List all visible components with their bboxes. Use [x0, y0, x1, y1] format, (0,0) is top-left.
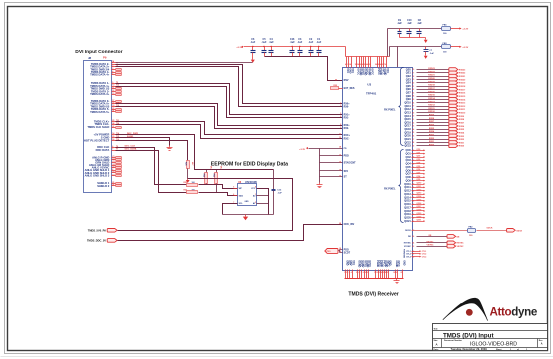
capacitor C8 0.1uF	[417, 19, 423, 38]
svg-text:VSYNC: VSYNC	[457, 246, 464, 248]
svg-text:34: 34	[412, 162, 414, 165]
svg-text:RXD18: RXD18	[459, 86, 466, 88]
svg-text:97: 97	[412, 139, 414, 141]
svg-text:11: 11	[339, 134, 341, 136]
connector pin C6 ANLG GND SHLD 2	[85, 171, 122, 175]
wire rail C to EXT_RES area	[397, 47, 399, 68]
svg-text:35: 35	[339, 170, 341, 172]
svg-text:QO11: QO11	[417, 186, 422, 188]
connector pin 15 S GND	[101, 135, 119, 139]
U3 right pin QO0 stub	[406, 149, 426, 152]
svg-text:RXD23: RXD23	[428, 68, 435, 70]
U3 caption	[348, 291, 398, 297]
svg-text:100: 100	[469, 235, 473, 237]
svg-text:RXD19: RXD19	[428, 81, 435, 83]
svg-text:37: 37	[339, 175, 341, 177]
wire FB1 to +3.3V	[451, 28, 460, 30]
connector pin C5 ANLG VSYNC	[92, 166, 122, 170]
svg-text:85: 85	[412, 99, 414, 101]
svg-text:PDO: PDO	[344, 155, 349, 158]
U3 bottom pin PGND	[378, 260, 383, 278]
U3 pin CTL3 stub	[406, 256, 426, 259]
svg-text:QO6: QO6	[417, 169, 421, 171]
U3 pin 5 RX1+	[340, 113, 350, 116]
svg-text:100: 100	[443, 33, 447, 35]
svg-text:P9: P9	[103, 55, 107, 59]
U3 right pin QE13 wire and port RXD10	[404, 111, 466, 115]
power arrow down group B	[424, 40, 428, 43]
EEPROM right pins	[245, 187, 257, 206]
power +3.3V arrow FB1	[459, 27, 468, 30]
U3 pin 3 RX0-	[340, 105, 349, 108]
U3 bottom pin PVCC	[376, 260, 381, 278]
capacitor C9 0.1uF	[397, 19, 402, 38]
svg-text:RXD1: RXD1	[429, 141, 435, 143]
svg-text:ODCK: ODCK	[487, 228, 493, 230]
svg-text:TMDS DATA 3+: TMDS DATA 3+	[90, 92, 110, 96]
U3 right pin QE15 wire and port RXD8	[404, 117, 465, 121]
connector pin C2 ANLG GRN	[95, 158, 122, 162]
U3 pin ODCK wire	[405, 230, 468, 232]
svg-text:.1uF: .1uF	[262, 41, 267, 44]
svg-text:79: 79	[412, 79, 414, 81]
svg-text:Sheet: Sheet	[496, 348, 502, 351]
svg-text:RX1-: RX1-	[344, 116, 350, 119]
U3 pin 33 STAG/CNT	[339, 161, 356, 164]
connector pin 6 DDC CLK	[97, 145, 118, 149]
connector pin C1 ANLG R-GND	[92, 155, 121, 159]
svg-text:RXD23: RXD23	[459, 69, 466, 71]
svg-text:RXD14: RXD14	[459, 98, 466, 101]
svg-text:RSV: RSV	[344, 79, 349, 82]
net label DDC_CLK	[125, 146, 136, 148]
ground bottom bus	[394, 279, 400, 284]
svg-text:DE: DE	[457, 236, 460, 238]
svg-text:33: 33	[339, 161, 341, 163]
svg-text:RXD21: RXD21	[428, 75, 435, 77]
svg-text:QO7: QO7	[417, 172, 421, 174]
svg-text:QO17: QO17	[417, 206, 422, 208]
svg-text:80: 80	[412, 82, 414, 84]
svg-text:10: 10	[366, 272, 368, 274]
connector pin 12 TMDS DATA 3-	[91, 89, 122, 93]
EEPROM U8 body	[238, 184, 257, 206]
connector J8 body	[84, 61, 112, 193]
connector pin 8 ANLG GND SHLD 1	[85, 168, 122, 172]
wire EEPROM GND to rail	[223, 204, 238, 215]
svg-text:RXD3: RXD3	[429, 134, 435, 136]
svg-text:OVCC: OVCC	[371, 68, 374, 75]
wire cap rail A	[244, 46, 346, 47]
U3 top pin 49 OVCC	[368, 57, 373, 76]
svg-text:RXD15: RXD15	[428, 95, 435, 97]
svg-text:8: 8	[340, 124, 341, 126]
wire +5V rail from pin 14	[116, 62, 253, 64]
power arrow down at R26	[186, 179, 190, 184]
svg-text:96: 96	[412, 136, 414, 138]
svg-text:RXD0: RXD0	[429, 144, 435, 146]
connector pin 25 SHIELD 1	[97, 181, 121, 185]
svg-text:.1uF: .1uF	[308, 41, 313, 44]
connector pin 18 TMDS DATA 0+	[90, 102, 119, 106]
U3 bottom pin OVCC	[363, 260, 367, 278]
U3 bottom pin VCC	[351, 260, 355, 278]
U3 right pin QO12 stub	[404, 189, 425, 192]
U3 bottom pin VCC	[346, 260, 350, 278]
svg-text:RXD17: RXD17	[459, 89, 466, 91]
U3 bottom pin AGND	[393, 260, 398, 278]
svg-text:QO20: QO20	[417, 216, 422, 218]
U3 right pin QO2 stub	[406, 156, 426, 159]
U3 right pin QE9 wire and port RXD14	[406, 97, 466, 101]
wire trunk to pin SF0	[320, 170, 343, 172]
svg-text:TMDS DATA 4+: TMDS DATA 4+	[90, 73, 110, 77]
logo red dot	[466, 309, 473, 316]
svg-text:.1uF: .1uF	[297, 41, 302, 44]
svg-text:QO14: QO14	[417, 195, 422, 198]
svg-text:RXD6: RXD6	[429, 125, 435, 127]
port ODCK	[507, 229, 523, 233]
U3 right pin QO16 stub	[404, 203, 425, 206]
svg-text:SCDT: SCDT	[344, 251, 351, 254]
U3 top pin 14 VCC	[349, 57, 354, 74]
svg-text:RXD2: RXD2	[459, 139, 465, 141]
U3 right pin QO18 stub	[404, 210, 425, 213]
svg-text:TFP401: TFP401	[366, 92, 377, 96]
svg-text:.1uF: .1uF	[407, 22, 412, 25]
svg-text:90: 90	[412, 116, 414, 118]
svg-text:42: 42	[412, 189, 414, 192]
svg-text:.1uF: .1uF	[269, 41, 274, 44]
svg-text:CTL2: CTL2	[406, 254, 411, 256]
title block outline	[433, 324, 548, 351]
power +3.3V arrow to PD	[299, 147, 308, 151]
U3 pin HSYNC wire and port	[404, 241, 464, 245]
resistor R26 HPD pulldown	[184, 161, 194, 169]
EEPROM section title	[211, 162, 288, 168]
port TMDS_DDC_5V	[87, 239, 117, 243]
connector pin 19 TMDS DMD 0/5	[90, 104, 119, 108]
capacitor C7 0.1uF	[424, 47, 435, 56]
U3 pin PD	[339, 147, 347, 150]
U3 right pin QO8 stub	[406, 176, 426, 179]
svg-text:Date:: Date:	[434, 348, 439, 351]
svg-text:3: 3	[340, 105, 341, 107]
logo Attodyne swoosh	[443, 298, 488, 321]
svg-text:2: 2	[340, 102, 341, 104]
U3 right pin QO19 stub	[404, 213, 425, 216]
svg-text:74: 74	[384, 63, 386, 66]
svg-text:RXD13: RXD13	[459, 103, 466, 105]
svg-text:53: 53	[412, 246, 414, 248]
wire TMDS pair 0 to RX2+	[116, 104, 343, 126]
connector J8 title	[75, 49, 122, 55]
svg-text:RX PIXEL: RX PIXEL	[384, 108, 396, 111]
svg-text:TMDS (DVI) Receiver: TMDS (DVI) Receiver	[348, 291, 398, 297]
wire TMDS pair 1 to RX1+	[116, 84, 343, 115]
svg-text:91: 91	[412, 119, 414, 121]
svg-text:RXD4: RXD4	[459, 131, 465, 134]
svg-text:.1uF: .1uF	[397, 22, 402, 25]
svg-text:8: 8	[363, 272, 364, 274]
net label DDC_DATA	[125, 147, 137, 150]
svg-text:.1uF: .1uF	[417, 22, 422, 25]
U3 right pin QE11 wire and port RXD12	[405, 104, 467, 108]
svg-text:RXD6: RXD6	[459, 126, 465, 128]
svg-text:ANLG GND SHLD 3: ANLG GND SHLD 3	[85, 174, 110, 178]
svg-text:DVI Input Connector: DVI Input Connector	[75, 49, 122, 55]
svg-text:RXD9: RXD9	[429, 115, 435, 117]
svg-text:AVCC: AVCC	[397, 260, 400, 267]
U3 top pin 39 OVCC	[364, 57, 369, 76]
svg-text:RXD22: RXD22	[459, 73, 466, 75]
U3 pin 12 RXC-	[339, 137, 349, 140]
wire ground bus bottom	[345, 278, 404, 280]
wire R25 to EEPROM SCL	[199, 185, 238, 189]
svg-text:VSYNC: VSYNC	[427, 245, 434, 247]
svg-text:RXD8: RXD8	[459, 119, 465, 121]
svg-text:54: 54	[412, 242, 414, 245]
resistor R24 pullup	[203, 166, 213, 185]
connector pin 16 HOT PLUG DETECT	[84, 138, 119, 142]
wire TMDS pair 1 to RX1-	[116, 87, 343, 118]
svg-text:SDA: SDA	[239, 195, 244, 198]
svg-text:VCC: VCC	[386, 68, 389, 73]
U3 right pin QO5 stub	[406, 166, 426, 169]
connector pin 4 TMDS DATA 4-	[91, 70, 122, 74]
svg-text:RXD11: RXD11	[428, 108, 435, 110]
capacitor C16 0.1uF	[290, 38, 296, 56]
net label SGND	[127, 136, 134, 138]
wire TMDS clock to RXC+	[116, 122, 343, 135]
svg-text:GND: GND	[389, 260, 392, 266]
svg-text:93: 93	[412, 126, 414, 128]
wire S GND	[116, 138, 170, 146]
U3 bottom pin PGND	[374, 260, 379, 278]
connector pin 2 TMDS DATA 2+	[90, 65, 118, 69]
svg-text:95: 95	[412, 132, 414, 134]
svg-text:RXD13: RXD13	[428, 101, 435, 103]
svg-text:QO13: QO13	[417, 193, 422, 195]
EEPROM left pins	[233, 187, 243, 206]
title block row lines	[433, 331, 548, 348]
svg-text:QO21: QO21	[404, 220, 411, 223]
resistor R27 series DDC DATA	[184, 189, 198, 193]
title block title text	[443, 332, 494, 339]
svg-text:QO5: QO5	[417, 166, 421, 168]
svg-text:IGLOO-VIDEO-BRD: IGLOO-VIDEO-BRD	[470, 342, 517, 348]
capacitor C1 0.1uF	[316, 38, 321, 56]
svg-text:RXD7: RXD7	[459, 122, 465, 124]
wire DDC CLK to R25	[116, 148, 187, 185]
svg-text:6: 6	[340, 116, 341, 118]
U3 pin 31 PDO	[339, 154, 349, 157]
svg-text:49: 49	[368, 63, 370, 66]
logo Attodyne text	[490, 305, 538, 318]
connector pin 14 +5V stub	[112, 60, 116, 63]
wire cap group A bottom rail to RSV pin	[265, 57, 343, 81]
svg-text:RXD20: RXD20	[428, 78, 435, 80]
svg-text:QO1: QO1	[417, 152, 421, 154]
svg-text:RXD0: RXD0	[459, 146, 465, 148]
svg-text:RXD17: RXD17	[428, 88, 435, 90]
U3 pin 11 RXC+	[339, 134, 350, 137]
connector pin 14 +5V POWER	[94, 132, 120, 136]
U3 bottom pin OGND	[356, 260, 360, 278]
U3 right pin QO17 stub	[404, 206, 425, 209]
U3 pin VSYNC wire and port	[404, 244, 464, 248]
svg-text:HSYNC: HSYNC	[404, 243, 412, 245]
U3 pin 6 RX1-	[340, 116, 349, 119]
U3 top pin 64 AVCC	[379, 57, 384, 76]
wire TMDS pair 2 to RX0+	[116, 65, 343, 104]
U3 top pin 24 OGND	[357, 57, 362, 76]
svg-text:QO0: QO0	[417, 149, 421, 151]
wire FB3 to +3.3V	[451, 46, 460, 48]
U3 top pin 59 PGND	[377, 57, 382, 76]
wire vertical rail B to receiver top	[387, 29, 389, 57]
U3 bottom pin OGND	[361, 260, 365, 278]
svg-text:CTL2: CTL2	[422, 254, 427, 256]
title block rev cell	[539, 340, 544, 346]
U3 right pin QE8 wire and port RXD15	[406, 94, 466, 98]
wire +5V POWER to EEPROM rail	[116, 135, 274, 170]
power arrow down C7	[424, 56, 428, 59]
capacitor C13 0.1uF	[272, 170, 283, 215]
U3 pin CTL1 stub	[406, 250, 426, 253]
connector pin 11 TMDS DMD 1/3	[90, 87, 121, 91]
svg-text:VSYNC: VSYNC	[404, 246, 411, 248]
U3 right pin QE0 wire and port RXD23	[406, 68, 466, 72]
resistor R22 EXT_RES	[331, 85, 355, 90]
U3 vertical label PWR DWN	[402, 249, 404, 259]
wire cap rail C	[390, 47, 442, 57]
svg-text:VCC: VCC	[251, 188, 256, 190]
EEPROM U8 refdes	[238, 181, 257, 184]
svg-text:92: 92	[412, 122, 414, 124]
ferrite bead FB1	[442, 25, 451, 36]
brace RX PIXEL group 1	[399, 68, 404, 146]
svg-text:4: 4	[345, 63, 346, 66]
connector pin 23 TMDS CLK+	[94, 119, 119, 123]
svg-text:12: 12	[339, 137, 341, 139]
wire R27 to EEPROM SDA	[199, 193, 238, 196]
U3 pin 2 RX0+	[340, 102, 350, 105]
wire TMDS_DDC_5V to OCK_INV	[118, 225, 343, 241]
connector pin 1 TMDS DATA 2-	[91, 62, 118, 66]
title block Title label	[434, 328, 439, 331]
resistor R25 series DDC CLK	[184, 182, 198, 187]
svg-text:28: 28	[339, 147, 341, 149]
svg-text:R22: R22	[334, 85, 337, 87]
U3 top pin 54 PVCC	[375, 57, 380, 76]
svg-text:56: 56	[412, 236, 414, 238]
connector pin 17 TMDS DATA 0-	[91, 99, 122, 103]
U3 right pin QO9 stub	[406, 179, 426, 182]
U3 right pin QE7 wire and port RXD16	[406, 91, 466, 95]
ferrite bead FB3	[442, 43, 451, 54]
svg-text:RXD16: RXD16	[428, 91, 435, 93]
U3 pin CTL2 stub	[406, 253, 426, 256]
svg-text:.1uF: .1uF	[316, 41, 321, 44]
svg-text:RXD8: RXD8	[429, 118, 435, 120]
U3 bottom pin OVCC	[366, 260, 371, 278]
svg-text:TMDS_5V0_PA: TMDS_5V0_PA	[88, 228, 106, 232]
net group label RX PIXEL 1	[384, 108, 396, 111]
U3 right pin QE2 wire and port RXD21	[406, 74, 466, 78]
ferrite bead FB2	[468, 227, 476, 238]
svg-text:ODCK: ODCK	[516, 230, 522, 232]
U3 right pin QO6 stub	[406, 169, 426, 172]
U3 right pin QE17 wire and port RXD6	[404, 124, 465, 128]
svg-text:A: A	[541, 343, 543, 346]
svg-text:48: 48	[412, 210, 414, 213]
svg-text:.1uF: .1uF	[277, 192, 282, 194]
svg-text:1: 1	[344, 272, 345, 274]
power +3.3V arrow left of cap rail	[236, 46, 243, 49]
wire R26 to TMDS_5V0_PA net	[187, 169, 189, 179]
svg-text:77: 77	[412, 73, 414, 75]
svg-text:99: 99	[335, 80, 337, 82]
U3 right pin QE1 wire and port RXD22	[406, 71, 466, 75]
U3 pin 37 ST	[339, 175, 347, 178]
U3 right pin QE3 wire and port RXD20	[406, 78, 466, 82]
svg-text:PD: PD	[344, 148, 347, 150]
wire EEPROM right pins to rail	[257, 189, 269, 215]
svg-text:CTL1: CTL1	[422, 251, 427, 253]
capacitor C5 0.1uF	[262, 38, 267, 56]
svg-text:STAG/CNT: STAG/CNT	[344, 162, 357, 165]
wire PDO SCDT join	[339, 250, 343, 253]
connector pin 24 TMDS CLK-	[95, 122, 120, 126]
U3 part number TFP401	[366, 92, 377, 96]
U3 top pin 44 OGND	[366, 57, 371, 76]
svg-text:RXD16: RXD16	[459, 93, 466, 95]
U3 bottom pin GND	[401, 260, 406, 278]
svg-text:51: 51	[412, 254, 414, 256]
U3 pins PDO SCDT	[339, 248, 350, 254]
svg-text:SF0: SF0	[344, 170, 349, 173]
U3 right pin QE19 wire and port RXD4	[404, 130, 465, 134]
svg-text:+3.3V: +3.3V	[299, 149, 305, 151]
svg-text:QO15: QO15	[417, 199, 422, 201]
U3 bottom pin OVCC	[359, 260, 363, 278]
U3 bottom pin AVCC	[395, 260, 400, 278]
svg-text:14: 14	[349, 63, 351, 66]
svg-text:99: 99	[412, 146, 414, 148]
connector pin 13 TMDS DATA 3+	[90, 92, 121, 96]
svg-text:A: A	[436, 343, 438, 347]
svg-text:94: 94	[412, 128, 414, 131]
svg-text:SGND: SGND	[127, 136, 134, 138]
svg-text:QO10: QO10	[417, 183, 422, 185]
wire FB2 to ODCK port	[477, 228, 507, 231]
svg-text:QO21: QO21	[417, 220, 422, 222]
power arrow down EEPROM	[243, 215, 248, 221]
svg-text:QO12: QO12	[417, 189, 422, 191]
U3 right pin QO13 stub	[404, 193, 425, 196]
svg-text:RXD3: RXD3	[459, 136, 465, 138]
svg-text:81: 81	[412, 86, 414, 88]
svg-text:RXD2: RXD2	[429, 138, 435, 140]
U3 top pin 9 GND	[347, 57, 351, 74]
net group label RX PIXEL 2	[384, 188, 396, 191]
svg-text:VCC: VCC	[351, 68, 354, 73]
wire trunk to pin STAG/CNT	[320, 162, 343, 164]
svg-text:4K7: 4K7	[220, 166, 223, 169]
U3 right pin QE5 wire and port RXD18	[406, 84, 466, 88]
U3 right pin QE12 wire and port RXD11	[404, 108, 466, 112]
